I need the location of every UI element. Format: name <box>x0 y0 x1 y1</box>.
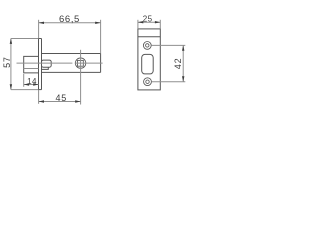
extension line below faceplate for 45 <box>38 90 40 104</box>
svg-text:25: 25 <box>143 14 153 23</box>
label 25 <box>143 14 153 23</box>
dimension 66,5 line <box>39 22 101 24</box>
bolt tail guide box <box>42 60 52 67</box>
svg-text:57: 57 <box>2 56 12 68</box>
faceplate (side view) rear face <box>41 39 43 90</box>
svg-text:45: 45 <box>55 93 67 103</box>
screw hole bottom <box>144 78 152 86</box>
dimension 57 line <box>10 39 12 90</box>
dimension 25 line <box>138 21 160 23</box>
tube step notch <box>42 67 49 69</box>
dimension 45 line <box>39 101 81 103</box>
arrow 42 bottom <box>182 76 184 81</box>
follower circle <box>75 58 85 68</box>
arrow 14 left <box>24 83 29 85</box>
latch tube/case bottom edge <box>42 71 101 73</box>
extension line above tube end for 66,5 <box>100 20 102 54</box>
arrow 42 top <box>182 45 184 50</box>
svg-text:42: 42 <box>173 58 183 70</box>
arrow 14 right <box>33 83 38 85</box>
faceplate front view outline <box>138 29 160 90</box>
horizontal center line <box>17 62 103 64</box>
latch bolt chamfer line <box>24 68 39 70</box>
latch bolt head <box>24 56 39 73</box>
label 14 <box>27 77 37 86</box>
dimension 42 line <box>182 45 184 81</box>
latch tube/case top edge <box>42 53 101 55</box>
extension line above faceplate for 66,5 <box>38 20 40 39</box>
latch bolt opening <box>142 54 154 74</box>
arrow 45 left <box>39 100 44 102</box>
label 57 <box>2 56 12 68</box>
arrow 66,5 right <box>95 22 100 24</box>
extension lines of 25 <box>138 20 160 29</box>
latch tube/case end edge <box>100 54 102 73</box>
faceplate (side view) front face <box>38 39 40 90</box>
svg-text:66,5: 66,5 <box>59 14 80 25</box>
vertical center line through follower / 45 extension <box>80 50 82 105</box>
arrow 66,5 left <box>39 22 44 24</box>
center line bottom hole / 42 extension <box>152 81 186 83</box>
svg-text:14: 14 <box>27 77 37 86</box>
extension line left of faceplate bottom for 57 <box>11 89 38 91</box>
faceplate front view fold line <box>138 36 160 38</box>
extension line left of faceplate top for 57 <box>11 38 38 40</box>
label 42 <box>173 58 183 70</box>
faceplate top edge <box>38 38 42 40</box>
spindle square hole <box>78 60 84 66</box>
arrow 57 bottom <box>10 84 12 89</box>
arrow 57 top <box>10 39 12 44</box>
extension line below bolt for 14 <box>23 74 25 87</box>
label 66,5 <box>59 14 80 25</box>
screw hole top <box>143 42 151 50</box>
arrow 45 right <box>75 100 80 102</box>
arrow 25 left <box>138 21 143 23</box>
faceplate bottom edge <box>38 89 42 91</box>
label 45 <box>55 93 67 103</box>
center line top hole / 42 extension <box>151 44 185 46</box>
arrow 25 right <box>155 21 160 23</box>
dimension 14 line <box>24 84 39 86</box>
